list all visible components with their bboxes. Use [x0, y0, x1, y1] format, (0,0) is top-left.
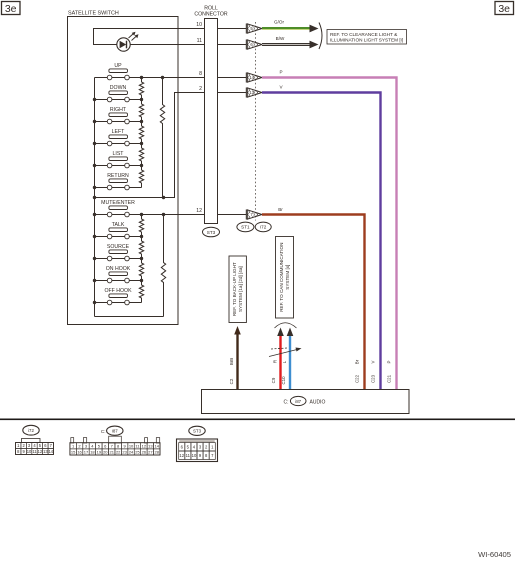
svg-text:C:: C: — [101, 429, 106, 434]
svg-text:2: 2 — [199, 86, 202, 92]
svg-text:V: V — [371, 360, 376, 363]
svg-text:B/W: B/W — [276, 36, 285, 41]
svg-text:TALK: TALK — [112, 222, 125, 228]
svg-text:C:: C: — [284, 399, 289, 405]
svg-text:26: 26 — [142, 450, 147, 455]
svg-text:12: 12 — [196, 208, 202, 214]
svg-text:OFF HOOK: OFF HOOK — [104, 288, 132, 294]
svg-text:SYSTEM [1a] [2d] [4a]: SYSTEM [1a] [2d] [4a] — [238, 266, 243, 312]
svg-text:ST3: ST3 — [207, 230, 216, 235]
svg-text:15: 15 — [71, 450, 76, 455]
svg-text:19: 19 — [97, 450, 102, 455]
svg-text:22: 22 — [116, 450, 121, 455]
svg-text:ILLUMINATION LIGHT SYSTEM [i]: ILLUMINATION LIGHT SYSTEM [i] — [330, 38, 403, 43]
svg-text:13: 13 — [249, 90, 254, 95]
svg-text:P: P — [387, 360, 392, 363]
svg-text:12: 12 — [179, 453, 184, 458]
svg-text:SOURCE: SOURCE — [107, 244, 130, 250]
svg-text:17: 17 — [84, 450, 89, 455]
svg-text:RETURN: RETURN — [107, 173, 129, 179]
svg-text:G/Or: G/Or — [274, 19, 284, 24]
svg-text:C9: C9 — [271, 377, 276, 383]
svg-text:3e: 3e — [498, 3, 510, 15]
svg-text:UP: UP — [114, 63, 122, 69]
svg-text:i87: i87 — [295, 399, 301, 404]
svg-text:21: 21 — [110, 450, 115, 455]
svg-text:23: 23 — [122, 450, 127, 455]
svg-text:LEFT: LEFT — [112, 129, 126, 135]
svg-text:12: 12 — [142, 444, 147, 449]
svg-text:10: 10 — [27, 449, 32, 454]
svg-text:i72: i72 — [260, 225, 267, 230]
svg-text:BrB: BrB — [229, 358, 234, 365]
svg-text:25: 25 — [135, 450, 140, 455]
svg-text:SYSTEM [x]: SYSTEM [x] — [285, 265, 290, 290]
svg-text:20: 20 — [103, 450, 108, 455]
svg-text:10: 10 — [196, 22, 202, 28]
svg-text:MUTE/ENTER: MUTE/ENTER — [101, 200, 135, 206]
svg-text:11: 11 — [197, 38, 202, 44]
svg-text:14: 14 — [49, 449, 54, 454]
svg-text:10: 10 — [129, 444, 134, 449]
svg-text:C23: C23 — [371, 374, 376, 383]
svg-text:REF. TO CAN COMMUNICATION: REF. TO CAN COMMUNICATION — [279, 243, 284, 312]
svg-text:RIGHT: RIGHT — [110, 107, 127, 113]
svg-text:Br: Br — [278, 207, 283, 212]
svg-text:11: 11 — [186, 453, 191, 458]
svg-text:ST3: ST3 — [193, 429, 202, 434]
svg-text:10: 10 — [192, 453, 197, 458]
svg-text:3e: 3e — [5, 3, 17, 15]
svg-text:28: 28 — [155, 450, 160, 455]
svg-text:REF. TO BACK-UP LIGHT: REF. TO BACK-UP LIGHT — [232, 262, 237, 316]
svg-text:24: 24 — [129, 450, 134, 455]
svg-text:16: 16 — [77, 450, 82, 455]
svg-text:LIST: LIST — [113, 151, 125, 157]
svg-text:C10: C10 — [281, 376, 286, 385]
svg-text:27: 27 — [148, 450, 153, 455]
svg-text:11: 11 — [32, 449, 37, 454]
svg-text:C22: C22 — [355, 374, 360, 383]
svg-text:8: 8 — [199, 71, 202, 77]
svg-text:14: 14 — [155, 444, 160, 449]
svg-text:DOWN: DOWN — [110, 85, 127, 91]
svg-text:CONNECTOR: CONNECTOR — [194, 12, 228, 18]
svg-text:i87: i87 — [112, 429, 118, 434]
svg-text:REF. TO CLEARANCE LIGHT &: REF. TO CLEARANCE LIGHT & — [330, 32, 398, 37]
svg-text:13: 13 — [148, 444, 153, 449]
svg-text:WI-60405: WI-60405 — [478, 550, 511, 559]
svg-text:i72: i72 — [28, 428, 34, 433]
svg-text:C21: C21 — [387, 374, 392, 383]
svg-text:C2: C2 — [229, 378, 234, 384]
svg-text:P: P — [279, 70, 282, 75]
svg-text:Br: Br — [355, 359, 360, 364]
svg-text:SATELLITE SWITCH: SATELLITE SWITCH — [68, 11, 119, 17]
svg-text:14: 14 — [249, 75, 254, 80]
svg-text:ON HOOK: ON HOOK — [106, 266, 131, 272]
svg-text:R: R — [273, 360, 278, 363]
svg-text:AUDIO: AUDIO — [310, 399, 326, 405]
svg-text:18: 18 — [90, 450, 95, 455]
svg-text:ST1: ST1 — [241, 225, 250, 230]
